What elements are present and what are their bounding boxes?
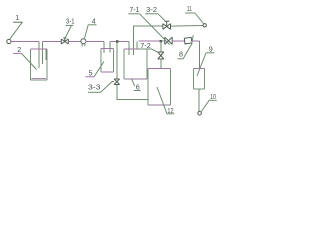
label 10 leader (201, 100, 209, 112)
valve 3-3 (112, 79, 119, 85)
liquid line vessel 2 (31, 78, 46, 80)
label 10 underline (209, 99, 217, 101)
label 6 leader (132, 79, 135, 86)
label 9 underline (206, 52, 215, 54)
label 2 leader (22, 53, 37, 69)
svg-text:3-2: 3-2 (146, 5, 157, 14)
valve 7-2 vertical (158, 52, 164, 59)
label 3-1 leader (65, 25, 71, 38)
node 10 circle (198, 112, 202, 116)
wire main purple line segment D (110, 41, 129, 43)
label 3-2 leader (158, 14, 165, 21)
node 11 circle (203, 24, 206, 27)
junction dot 7-2 (160, 40, 162, 42)
vessel 9 (193, 68, 204, 89)
wire pipe from valve 3-3 down and right to vessel 12 (117, 85, 148, 100)
svg-text:4: 4 (92, 16, 96, 25)
svg-text:9: 9 (209, 44, 213, 53)
wire top green line segment (171, 25, 204, 28)
wire main purple line segment B (43, 41, 62, 43)
vessel 6 (124, 49, 147, 79)
label 1 leader (10, 22, 22, 39)
label 11 underline (185, 12, 195, 14)
svg-text:2: 2 (17, 45, 21, 54)
label 7-1 underline (128, 13, 139, 15)
label 7-2 underline (137, 48, 151, 50)
wire main purple line segment B2 (68, 41, 81, 43)
svg-text:6: 6 (136, 82, 140, 91)
wire tube into vessel 6 left (128, 42, 130, 56)
wire pipe below vessel 9 (198, 89, 200, 112)
vessel 2 (30, 49, 47, 80)
svg-text:8: 8 (179, 50, 183, 59)
svg-text:5: 5 (89, 68, 93, 77)
label 9 leader (197, 53, 206, 76)
label 3-2 underline (145, 13, 158, 15)
wire pipe down from main line to valve 7-2 (160, 41, 162, 52)
svg-text:1: 1 (15, 13, 19, 22)
svg-text:3-1: 3-1 (66, 17, 75, 26)
label 3-3 leader (101, 82, 113, 93)
label 8 leader (183, 35, 193, 59)
label 12 leader (157, 87, 167, 114)
label 12 underline (167, 113, 174, 115)
valve 3-1 center dot (64, 41, 66, 43)
pump 4 (81, 39, 86, 47)
vessel 5 (101, 48, 113, 72)
label 6 underline (134, 90, 141, 92)
label 8 underline (178, 58, 184, 60)
node 1 inlet circle (7, 39, 11, 43)
label 7-2 leader (152, 49, 158, 52)
wire main purple line segment A (11, 41, 39, 43)
label 4 leader (84, 25, 88, 40)
flowmeter 8 parallelogram (184, 37, 192, 44)
wire pipe down to valve 3-3 (116, 42, 118, 80)
label 5 leader (94, 62, 104, 77)
wire tube into vessel 5 right (109, 42, 111, 53)
valve 3-2 (163, 21, 171, 29)
wire tube into vessel 5 left (103, 42, 105, 54)
label 3-1 underline (66, 24, 74, 26)
wire tube into vessel 6 mid (136, 42, 138, 49)
label 3-3 underline (88, 91, 101, 93)
wire main purple line segment E (139, 40, 165, 42)
label 7-1 leader (140, 14, 170, 45)
label 5 underline (86, 76, 95, 78)
valve 7-1 (165, 37, 172, 44)
valve 3-1 (61, 38, 68, 44)
label 4 underline (88, 24, 96, 26)
label 11 leader (195, 13, 204, 24)
wire main purple line segment F (172, 40, 184, 42)
wire short tube vessel 2 (45, 49, 47, 60)
wire main purple line segment C (86, 41, 104, 43)
junction dot (116, 40, 119, 43)
svg-text:7-1: 7-1 (129, 5, 139, 14)
label 1 underline (13, 21, 23, 23)
svg-text:3-3: 3-3 (88, 82, 101, 91)
vessel 12 (148, 69, 170, 105)
wire pipe from valve 7-2 into vessel 12 (160, 59, 162, 69)
wire main purple line segment G (192, 40, 200, 42)
svg-text:11: 11 (187, 4, 192, 13)
wire pipe down to vessel 9 (198, 41, 200, 68)
label 2 underline (13, 52, 22, 54)
wire dip tube into vessel 2 left (38, 42, 40, 69)
wire riser to top line (134, 26, 163, 55)
wire dip tube into vessel 2 right (42, 42, 44, 65)
